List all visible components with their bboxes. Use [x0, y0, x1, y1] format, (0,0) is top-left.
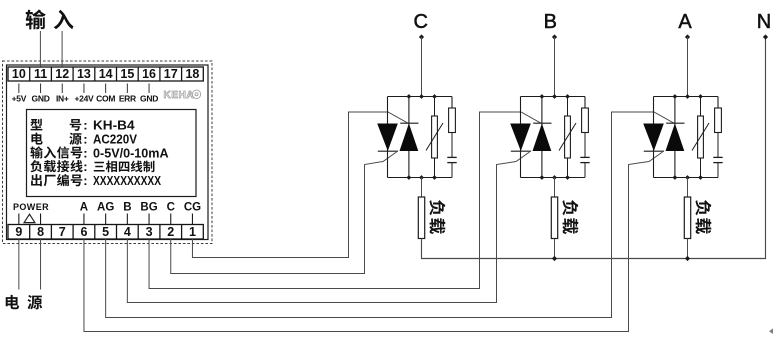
svg-text:1: 1	[189, 225, 196, 239]
svg-text:POWER: POWER	[13, 202, 49, 212]
svg-text::: :	[83, 173, 87, 188]
svg-text:CG: CG	[184, 202, 201, 214]
svg-text:GND: GND	[32, 94, 50, 104]
svg-text:18: 18	[185, 67, 199, 81]
svg-text:10: 10	[12, 67, 26, 81]
svg-text:7: 7	[59, 225, 66, 239]
svg-text:COM: COM	[96, 94, 115, 104]
svg-text:0-5V/0-10mA: 0-5V/0-10mA	[93, 145, 169, 160]
svg-text:3: 3	[146, 225, 153, 239]
svg-text:KEHA: KEHA	[164, 90, 195, 101]
svg-text:2: 2	[167, 225, 174, 239]
svg-text:B: B	[544, 11, 557, 33]
svg-text:4: 4	[124, 225, 131, 239]
svg-text:5: 5	[102, 225, 109, 239]
svg-text::: :	[83, 118, 87, 133]
svg-text:15: 15	[120, 67, 134, 81]
svg-text:14: 14	[99, 67, 113, 81]
svg-text:13: 13	[77, 67, 91, 81]
svg-text:KH-B4: KH-B4	[93, 118, 135, 133]
svg-text:11: 11	[34, 67, 47, 81]
svg-text:8: 8	[37, 225, 44, 239]
svg-text:BG: BG	[140, 202, 157, 214]
svg-text:6: 6	[80, 225, 87, 239]
svg-text:C: C	[413, 11, 427, 33]
svg-text:AC220V: AC220V	[93, 132, 137, 147]
svg-text::: :	[83, 132, 87, 147]
svg-text:+5V: +5V	[12, 94, 27, 104]
svg-text:IN+: IN+	[56, 94, 69, 104]
svg-text:AG: AG	[97, 202, 114, 214]
svg-text:17: 17	[164, 67, 178, 81]
svg-text:C: C	[167, 202, 175, 214]
svg-text:N: N	[757, 11, 771, 33]
svg-text:12: 12	[55, 67, 69, 81]
svg-text:ERR: ERR	[119, 94, 136, 104]
svg-text:GND: GND	[140, 94, 158, 104]
svg-text:B: B	[123, 202, 131, 214]
svg-text:A: A	[678, 11, 692, 33]
svg-text::: :	[83, 159, 87, 174]
svg-text:9: 9	[15, 225, 22, 239]
svg-text:XXXXXXXXXX: XXXXXXXXXX	[93, 173, 161, 188]
svg-text:16: 16	[142, 67, 156, 81]
svg-text:A: A	[80, 202, 88, 214]
svg-text:+24V: +24V	[75, 94, 95, 104]
